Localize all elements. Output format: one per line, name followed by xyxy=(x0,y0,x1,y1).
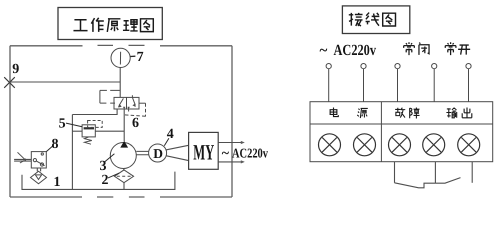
terminal pin 2 xyxy=(361,64,366,102)
label 电 源 xyxy=(330,107,368,118)
filter 2 diamond xyxy=(114,170,133,183)
valve 6 right cell arrow xyxy=(132,95,135,106)
leader line for 4 xyxy=(164,138,169,146)
pressure gauge 7 xyxy=(111,48,130,67)
terminal circle 4 xyxy=(423,134,445,156)
svg-text:D: D xyxy=(153,146,163,161)
svg-text:2: 2 xyxy=(102,173,109,188)
directional valve 6 body xyxy=(114,97,139,109)
svg-text:~: ~ xyxy=(320,43,328,59)
pressure switch 8 box xyxy=(31,152,46,168)
terminal pin 3 xyxy=(395,64,400,102)
svg-text:MY: MY xyxy=(193,140,214,165)
valve 6 blocked port T marks xyxy=(123,107,129,111)
wire gauge to valve top xyxy=(119,68,121,98)
tank bracket xyxy=(22,172,175,190)
svg-text:5: 5 xyxy=(59,116,66,131)
leader line for 7 xyxy=(130,55,135,57)
terminal circle 3 xyxy=(389,134,411,156)
relief branch wire left xyxy=(72,130,82,132)
terminal circle 1 xyxy=(319,134,341,156)
leader line for 2 xyxy=(108,173,119,178)
label 常开 xyxy=(445,42,470,55)
filter drain stub xyxy=(123,183,125,190)
label 输出 xyxy=(446,107,471,117)
leader line for 5 xyxy=(66,123,82,127)
title text 接线图 xyxy=(349,13,396,26)
terminal pin 4 xyxy=(432,64,437,102)
relief valve 5 pilot dashed box xyxy=(88,121,103,128)
terminal circle 2 xyxy=(354,134,376,156)
valve 6 left cell arrow xyxy=(118,98,123,107)
coupling shaft double line xyxy=(136,151,148,154)
AC supply wire upper with arrow xyxy=(218,141,245,144)
terminal circle 5 xyxy=(458,134,480,156)
pressure switch 8 actuation arrow xyxy=(18,152,27,163)
svg-text:3: 3 xyxy=(100,159,107,174)
leader line for 8 xyxy=(46,146,53,152)
title box 工作原理图 xyxy=(58,8,162,40)
shutoff valve 9 (X mark) xyxy=(4,77,15,88)
label 故障 xyxy=(395,107,419,118)
NO contact wiring below block xyxy=(435,162,472,184)
svg-text:AC220v: AC220v xyxy=(334,42,377,59)
pump 3 xyxy=(110,141,136,169)
svg-text:AC220v: AC220v xyxy=(232,146,268,161)
breather diamond (component 1) xyxy=(31,171,47,184)
drain wire down to tank xyxy=(71,115,73,190)
svg-text:7: 7 xyxy=(137,50,144,65)
terminal pin 1 xyxy=(326,64,331,102)
pressure wire valve to pump xyxy=(123,107,125,141)
svg-text:8: 8 xyxy=(52,137,59,152)
label 常闭 xyxy=(404,42,429,55)
wiring title box 接线图 xyxy=(342,6,409,34)
svg-text:1: 1 xyxy=(54,175,61,190)
relief branch wire right xyxy=(95,130,124,132)
wires D to motor MY xyxy=(166,145,188,160)
terminal pin 5 xyxy=(466,64,471,102)
svg-text:6: 6 xyxy=(132,116,139,131)
leader line for 3 xyxy=(105,154,115,162)
svg-text:~: ~ xyxy=(222,147,230,162)
spring return dashed box right of valve xyxy=(124,103,146,116)
prime mover D xyxy=(149,144,167,162)
pressure switch 8 wires left xyxy=(14,159,31,161)
svg-text:9: 9 xyxy=(12,62,19,77)
terminal block box xyxy=(310,102,493,162)
wire from 9 to gauge riser xyxy=(10,81,121,83)
motor box MY xyxy=(189,132,219,169)
main enclosure frame xyxy=(10,45,232,197)
legs from switch to breather xyxy=(37,168,40,171)
svg-text:4: 4 xyxy=(167,127,174,142)
return wire valve to drain xyxy=(72,109,117,115)
relief valve 5 xyxy=(82,125,95,144)
title text 工作原理图 xyxy=(73,18,153,32)
suction wire pump to filter xyxy=(123,169,125,171)
AC supply wire lower with arrow xyxy=(218,160,245,163)
solenoid pilot bracket left of valve xyxy=(100,90,120,103)
NC contact wiring below block xyxy=(395,162,436,188)
